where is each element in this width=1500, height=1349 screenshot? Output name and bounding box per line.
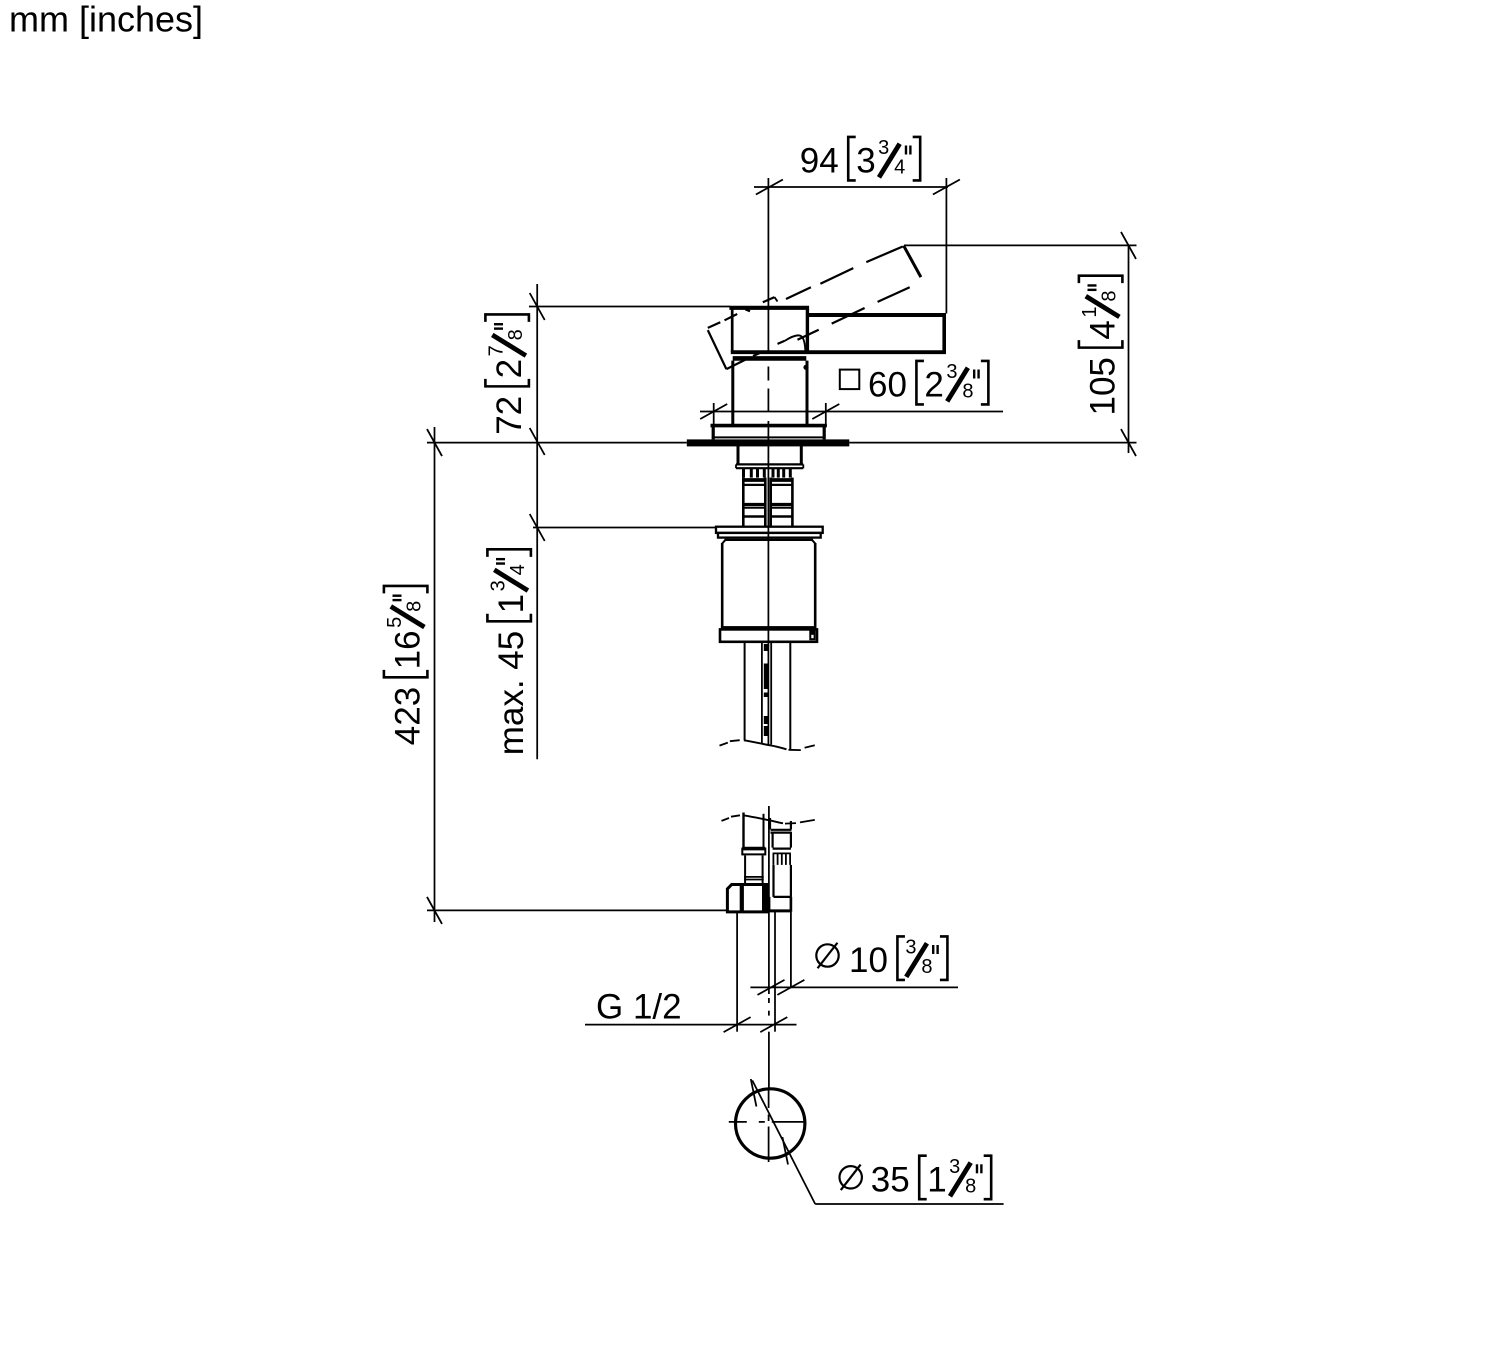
dim 94 label — [800, 137, 920, 181]
svg-text:105: 105 — [1084, 357, 1123, 415]
dashed raised lever top edge + cap — [904, 246, 921, 278]
svg-text:8: 8 — [404, 601, 426, 612]
cartridge cylinder — [721, 543, 724, 628]
svg-text:mm [inches]: mm [inches] — [9, 0, 203, 40]
threaded shank — [737, 446, 740, 465]
dim 423 extension+line+ticks — [427, 442, 687, 444]
svg-text:35: 35 — [871, 1160, 910, 1199]
lower right hose — [768, 818, 771, 829]
elbow fitting — [774, 896, 791, 898]
mounting hole horizontal centerline — [729, 1121, 747, 1123]
dim 105 extension+line+ticks — [904, 244, 1137, 246]
lower left hose — [742, 813, 744, 848]
svg-text:8: 8 — [1099, 291, 1121, 302]
dashed raised lever bottom edge — [878, 287, 910, 302]
countertop bar — [687, 439, 850, 446]
supply hose at x=743.3 — [742, 478, 745, 527]
svg-text:2: 2 — [924, 366, 943, 405]
dim 105 label — [1079, 276, 1123, 416]
svg-text:3: 3 — [905, 937, 916, 959]
hose coupling nut G 1/2 — [727, 885, 767, 912]
lever top edge — [807, 313, 946, 317]
svg-text:10: 10 — [849, 941, 888, 980]
handle body right edge — [806, 309, 809, 353]
svg-text:4: 4 — [1084, 320, 1123, 339]
svg-text:3: 3 — [856, 142, 875, 181]
dim dia35 label — [840, 1166, 862, 1188]
dim 72 extension+line+ticks — [529, 306, 730, 308]
svg-text:1: 1 — [1079, 307, 1101, 318]
dim dia10 label — [816, 944, 838, 966]
break line lower — [722, 818, 730, 821]
leader dia35 — [752, 1080, 815, 1204]
svg-text:3: 3 — [878, 137, 889, 159]
seam band — [733, 356, 807, 361]
supply hose at x=770.7 — [769, 478, 772, 527]
svg-text:7: 7 — [486, 345, 508, 356]
svg-text:3: 3 — [946, 361, 957, 383]
break line upper — [720, 743, 728, 746]
svg-text:72: 72 — [490, 396, 529, 435]
retaining nut — [720, 629, 817, 641]
pull rod hidden detail — [764, 644, 769, 651]
dim dia10 line+ticks — [750, 986, 958, 988]
svg-text:16: 16 — [389, 630, 428, 669]
dim 94 extension+line+ticks — [945, 178, 947, 314]
svg-text:8: 8 — [962, 381, 973, 403]
svg-text:1: 1 — [927, 1160, 946, 1199]
svg-text:5: 5 — [384, 617, 406, 628]
svg-text:8: 8 — [505, 329, 527, 340]
mounting hole circle dia35 — [736, 1089, 805, 1158]
dim max45 extension+tick — [533, 527, 716, 529]
riser tube ext lines — [736, 912, 738, 1032]
svg-text:8: 8 — [965, 1175, 976, 1197]
dim G1/2 line+ticks — [585, 1024, 797, 1026]
down tubes — [744, 642, 746, 740]
supply studs thread pattern — [742, 468, 745, 477]
right hose threaded end — [772, 853, 774, 865]
dim max45 label — [487, 549, 531, 755]
dim 72 label — [485, 314, 529, 434]
set screw dot — [803, 365, 808, 370]
svg-text:8: 8 — [921, 956, 932, 978]
svg-text:2: 2 — [490, 359, 529, 378]
svg-text:60: 60 — [868, 366, 907, 405]
svg-text:max. 45: max. 45 — [492, 631, 531, 756]
svg-text:4: 4 — [507, 564, 529, 575]
handle body top edge — [729, 306, 809, 310]
valve body left edge — [731, 361, 734, 426]
dim 423 label — [384, 586, 428, 745]
svg-text:1: 1 — [492, 594, 531, 613]
lever end cap — [942, 315, 946, 352]
lever/body bottom edge — [731, 350, 946, 354]
valve body right edge — [806, 361, 809, 426]
dim 60 extensions+line+ticks — [713, 403, 715, 426]
svg-text:423: 423 — [389, 687, 428, 745]
dim 60 label with square symbol — [840, 370, 860, 390]
handle body left edge — [731, 306, 734, 352]
svg-text:3: 3 — [949, 1156, 960, 1178]
svg-text:G 1/2: G 1/2 — [596, 988, 682, 1027]
clamp flange plate 2 — [718, 533, 821, 538]
escutcheon flange — [711, 424, 827, 428]
dashed raised lever collar — [708, 322, 721, 328]
clamp flange plate 1 — [716, 527, 823, 533]
vertical centerline of faucet axis — [767, 178, 769, 352]
svg-text:3: 3 — [488, 580, 510, 591]
svg-text:94: 94 — [800, 142, 839, 181]
svg-text:4: 4 — [894, 157, 905, 179]
